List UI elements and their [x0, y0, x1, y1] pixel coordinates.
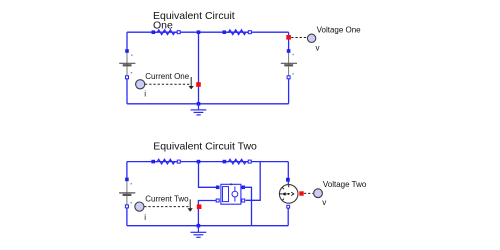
- wire: voltmeter bottom pin to bottom rail: [287, 207, 289, 226]
- connector: voltage sensor two output circle: [314, 189, 323, 198]
- node: circuit one ground junction: [197, 102, 201, 106]
- wire: circuit one middle vertical: [198, 32, 200, 104]
- ground G2 (circuit two): [191, 226, 207, 238]
- node: circuit two ground junction: [197, 224, 201, 228]
- svg-text:v: v: [316, 43, 320, 52]
- wire: circuit two left vertical lower: [126, 207, 128, 226]
- arrow: current one direction (down): [189, 77, 194, 89]
- connector: current source two input circle: [135, 202, 144, 211]
- node: circuit one top junction: [197, 30, 201, 34]
- wire: circuit two top: [127, 161, 288, 163]
- svg-text:Equivalent Circuit Two: Equivalent Circuit Two: [153, 141, 257, 153]
- dashed signal line from current source two: [144, 206, 189, 208]
- node: circuit one middle red connection marker: [196, 82, 201, 87]
- transducer U1 (controlled source two-port): [216, 183, 245, 204]
- node: circuit two red connection marker (current): [197, 204, 202, 209]
- battery V1 (circuit one left voltage source): [119, 49, 135, 79]
- node: circuit one top-right red connection marker: [286, 35, 291, 40]
- wire: circuit two bottom: [127, 225, 288, 227]
- wire: circuit two lower-left of transducer to ground rail: [198, 201, 216, 226]
- svg-text:Voltage Two: Voltage Two: [323, 180, 367, 189]
- arrow: current two direction (down): [188, 199, 193, 211]
- resistor R1 (circuit one left): [152, 30, 181, 35]
- resistor R4 (circuit two right): [223, 159, 252, 164]
- dashed signal line to voltage sensor two: [304, 192, 313, 194]
- wire: circuit one left vertical: [126, 32, 128, 52]
- wire: circuit one right vertical upper: [288, 32, 290, 52]
- wire: top rail to voltmeter top pin: [287, 162, 289, 184]
- dashed signal line to voltage sensor one: [291, 37, 307, 39]
- connector: current source one input circle: [136, 80, 145, 89]
- svg-text:Voltage One: Voltage One: [317, 25, 362, 34]
- resistor R2 (circuit one right): [223, 30, 252, 35]
- wire: circuit one top: [127, 31, 289, 33]
- svg-text:i: i: [144, 89, 146, 98]
- wire: top rail down to transducer bottom-right pin: [245, 162, 260, 201]
- ground G1 (circuit one): [191, 104, 207, 115]
- connector: voltage sensor one output circle: [307, 34, 315, 42]
- resistor R3 (circuit two left): [151, 159, 180, 164]
- wire: circuit one right lower vertical: [288, 77, 290, 104]
- battery V3 (circuit two left voltage source): [119, 178, 135, 208]
- wire: circuit two left vertical upper: [126, 162, 128, 181]
- wire: circuit one left lower vertical: [126, 77, 128, 104]
- title: Equivalent Circuit One: [153, 10, 235, 32]
- node: circuit two top junction: [197, 160, 201, 164]
- node: circuit two red connection marker (voltage): [299, 191, 303, 195]
- dashed signal line from current source one: [145, 83, 189, 85]
- svg-text:v: v: [322, 198, 326, 207]
- wire: circuit two middle vertical to transducer top-left pin: [199, 162, 217, 188]
- voltmeter M1 (circuit two): [279, 178, 298, 208]
- wire: transducer top-right pin down to bottom rail: [243, 187, 251, 225]
- svg-text:Current One: Current One: [145, 72, 190, 81]
- svg-text:Current Two: Current Two: [145, 195, 189, 204]
- battery V2 (circuit one right voltage source): [281, 49, 297, 79]
- svg-text:i: i: [144, 213, 146, 222]
- wire: circuit one bottom: [127, 103, 289, 105]
